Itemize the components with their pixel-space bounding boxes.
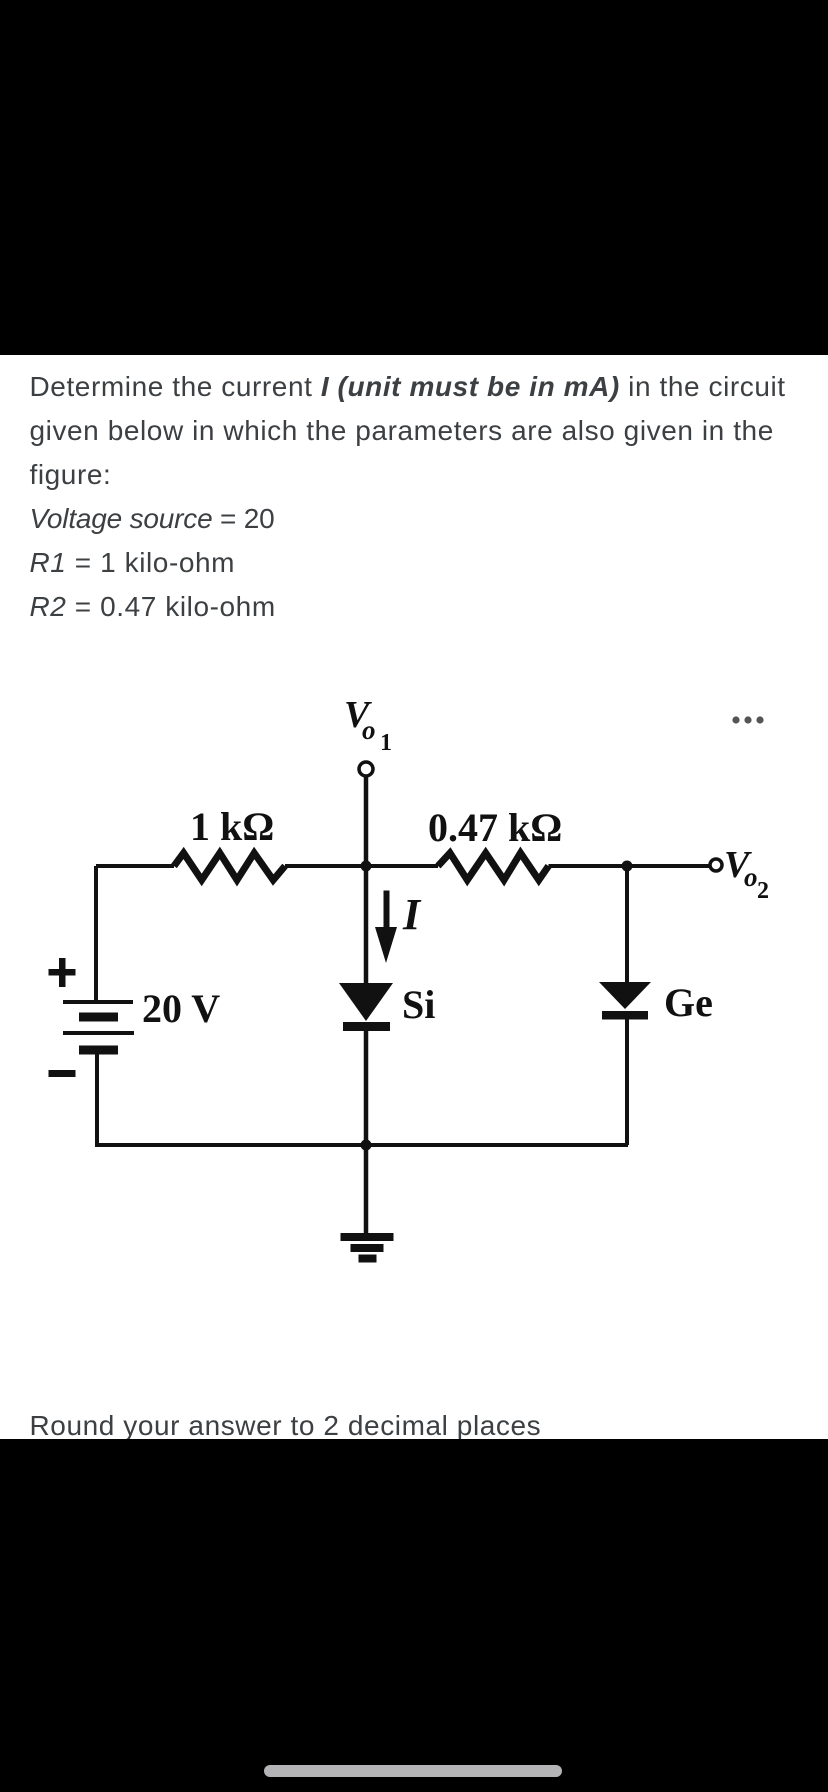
svg-text:2: 2 [757,878,769,904]
svg-text:Si: Si [402,982,435,1027]
svg-text:0.47 kΩ: 0.47 kΩ [428,805,562,850]
svg-text:1 kΩ: 1 kΩ [190,804,274,849]
svg-text:o: o [744,862,758,892]
svg-text:1: 1 [380,730,392,756]
svg-text:I: I [402,890,422,939]
svg-text:20 V: 20 V [142,986,220,1031]
svg-text:o: o [362,715,376,745]
svg-text:Ge: Ge [664,980,713,1025]
